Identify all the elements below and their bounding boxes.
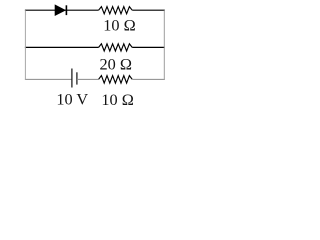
wire left vertical: [24, 10, 26, 79]
wire right vertical: [163, 10, 165, 80]
resistor R1 10 ohm (top): [99, 7, 133, 14]
diode D1: [55, 5, 66, 16]
svg-text:10 V: 10 V: [56, 90, 88, 109]
svg-text:10 Ω: 10 Ω: [101, 90, 133, 109]
wire top rail left segment: [25, 9, 99, 11]
resistor R2 20 ohm (middle): [99, 44, 133, 51]
battery B1 short plate: [76, 72, 78, 84]
wire middle rail right segment: [132, 46, 165, 48]
wire bottom rail right segment: [132, 78, 165, 80]
wire top rail right segment: [132, 9, 165, 11]
resistor R3 10 ohm (bottom): [99, 76, 133, 84]
wire middle rail left segment: [25, 46, 99, 48]
battery B1 long plate: [71, 69, 73, 88]
svg-text:20 Ω: 20 Ω: [99, 55, 131, 74]
wire bottom rail middle segment: [77, 78, 99, 80]
wire bottom rail left segment: [25, 78, 72, 80]
svg-text:10 Ω: 10 Ω: [103, 16, 135, 35]
